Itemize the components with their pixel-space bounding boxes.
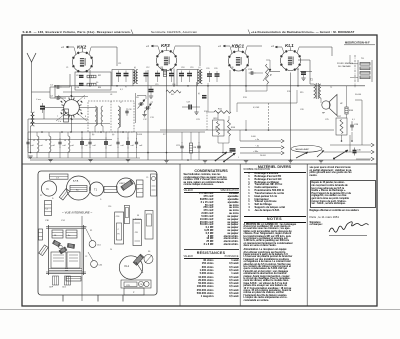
junction	[122, 131, 124, 133]
capacitor C27	[301, 71, 306, 73]
svg-text:C: C	[118, 229, 120, 231]
wire KL1 grid cap left	[275, 46, 282, 48]
layout left small rect	[39, 229, 43, 240]
potentiometer P	[266, 64, 269, 84]
svg-text:7: 7	[57, 116, 59, 118]
section divider line	[22, 163, 377, 165]
layout can F	[51, 252, 66, 268]
svg-text:L5: L5	[95, 109, 97, 111]
svg-text:cmF: cmF	[40, 145, 43, 147]
svg-text:R12: R12	[214, 118, 219, 120]
svg-text:cmF: cmF	[52, 145, 55, 147]
capacitor C2	[27, 138, 29, 142]
capacitor C9	[79, 75, 84, 77]
wire C7 top	[117, 132, 119, 139]
layout rect C7	[50, 174, 69, 179]
svg-text:C21: C21	[176, 145, 181, 147]
resistor R5	[163, 70, 166, 77]
coil L3	[49, 136, 51, 152]
header divider tick 1	[131, 30, 133, 35]
svg-text:C7: C7	[151, 102, 154, 104]
svg-text:C10: C10	[76, 87, 81, 89]
terminal arrow right 1	[371, 143, 374, 147]
svg-text:C tr: C tr	[58, 120, 62, 123]
layout pivot circle	[59, 245, 63, 249]
capacitor C8	[126, 108, 128, 111]
chassis foot 1	[62, 295, 64, 302]
svg-text:KF3: KF3	[161, 43, 170, 48]
capacitor C6	[105, 138, 107, 143]
capacitor C17	[188, 105, 190, 110]
svg-text:(r): (r)	[199, 66, 201, 69]
svg-text:R14: R14	[231, 127, 236, 129]
ground Cg	[149, 95, 153, 97]
resistor R3	[87, 83, 96, 86]
wire rail +4v	[240, 140, 281, 142]
wire C7 bottom	[117, 147, 119, 158]
antenna	[27, 53, 36, 62]
wire KL1 plate to T2	[298, 59, 310, 61]
junction	[341, 140, 343, 142]
svg-text:Sentinelle CHASSIS, Américain: Sentinelle CHASSIS, Américain	[151, 30, 197, 34]
layout gang rail right	[83, 225, 85, 275]
svg-text:C8: C8	[129, 109, 133, 111]
junction	[166, 152, 168, 154]
layout rect P	[124, 288, 144, 295]
page bottom scan line	[0, 309, 400, 311]
wire KF3 grid cap left	[151, 45, 158, 47]
tube KF3	[157, 51, 177, 71]
wire AVC bus	[28, 152, 232, 154]
svg-text:cmF: cmF	[31, 145, 34, 147]
capacitor C15	[155, 73, 160, 75]
wire KK2 plate drop	[89, 70, 91, 86]
capacitor C18	[179, 73, 184, 75]
junction	[222, 152, 224, 154]
wire antenna to coil	[31, 111, 33, 112]
svg-text:C19: C19	[230, 67, 235, 69]
wire ant caps	[50, 86, 56, 88]
ground C17	[194, 111, 198, 113]
wire rail drops	[215, 126, 217, 130]
resistor box R12	[213, 120, 225, 136]
layout rect C29	[121, 280, 151, 288]
ground forest 1	[48, 159, 52, 161]
svg-text:5.000: 5.000	[251, 136, 256, 138]
layout tilted lug	[59, 189, 69, 201]
wire socket diag	[78, 95, 86, 102]
terminal strip row 4	[360, 76, 370, 79]
layout rect CW	[151, 174, 157, 196]
layout rect B	[124, 206, 129, 224]
svg-text:S.B.R. — 136, Boulevard Voltai: S.B.R. — 136, Boulevard Voltaire, Paris …	[23, 30, 131, 34]
wire pot bottom	[266, 84, 268, 91]
wire KF3 grid cap right	[175, 45, 200, 47]
shield box KK2 cathode	[75, 72, 111, 90]
junction	[245, 85, 247, 87]
layout filter can	[67, 176, 91, 200]
junction	[70, 131, 72, 133]
svg-text:C25: C25	[325, 119, 330, 121]
svg-text:C11: C11	[118, 63, 121, 65]
wire L3 top	[48, 132, 50, 136]
wire KBC plate	[245, 86, 247, 92]
junction	[173, 85, 175, 87]
svg-text:0,5 MF: 0,5 MF	[253, 107, 260, 109]
svg-text:+4: +4	[218, 45, 221, 48]
wire ground bus	[30, 159, 370, 161]
layout gang top bar	[46, 226, 86, 228]
svg-text:+4: +4	[146, 45, 149, 48]
svg-text:R2: R2	[98, 75, 102, 77]
svg-text:+ 80v: + 80v	[253, 151, 259, 153]
wire detector links	[217, 116, 219, 120]
layout rect R9	[104, 187, 117, 193]
layout foot F	[53, 276, 59, 285]
svg-text:cmF: cmF	[85, 145, 88, 147]
svg-text:C16: C16	[172, 84, 175, 86]
resistor R16	[345, 107, 348, 114]
wire KBC1 top stub	[238, 46, 240, 51]
layout circle E	[144, 255, 153, 264]
wire KF3 plate drop	[173, 69, 175, 86]
speaker	[322, 101, 330, 109]
wire screen bus drop	[27, 119, 29, 153]
capacitor C20	[207, 73, 212, 75]
coil L5	[95, 106, 97, 126]
svg-text:20.000: 20.000	[260, 155, 266, 157]
capacitor C2	[55, 97, 58, 99]
capacitor C11	[116, 73, 121, 75]
tube KL1	[281, 51, 301, 71]
column divider 3	[306, 164, 308, 306]
capacitor C30	[354, 148, 356, 151]
capacitor C8	[127, 138, 129, 143]
layout MF block 2	[66, 230, 77, 238]
capacitor C12	[124, 73, 129, 75]
page frame	[22, 35, 377, 306]
capacitor C13	[144, 73, 149, 75]
chassis outline	[38, 171, 157, 295]
svg-text:C8: C8	[135, 232, 139, 234]
svg-text:5.000: 5.000	[137, 134, 143, 136]
svg-text:C2: C2	[50, 96, 54, 98]
wire socket to bus	[44, 107, 64, 109]
svg-text:– VUE INTERIEURE –: – VUE INTERIEURE –	[61, 211, 93, 215]
layout rect C22	[137, 180, 144, 197]
coil L1 antenna primary	[31, 112, 33, 126]
svg-text:0,1: 0,1	[120, 89, 124, 91]
svg-text:C15: C15	[155, 84, 158, 86]
layout can J	[67, 252, 80, 268]
wire C3 bottom	[59, 147, 61, 158]
IF2 can outline	[177, 70, 198, 86]
wire C21R8 top	[181, 132, 183, 143]
capacitor C28	[351, 121, 353, 125]
coil L1 antenna secondary	[33, 112, 35, 126]
svg-text:C2: C2	[85, 256, 87, 258]
ground antenna	[28, 155, 32, 157]
svg-text:f3: f3	[137, 215, 140, 217]
svg-text:C4: C4	[54, 235, 56, 237]
svg-text:cmF: cmF	[139, 145, 142, 147]
capacitor C21	[181, 142, 183, 146]
svg-text:C12: C12	[146, 67, 149, 69]
svg-text:TR: TR	[117, 234, 120, 236]
resistor box R17	[336, 118, 347, 135]
capacitor C19	[187, 73, 192, 75]
wire C17 leads	[182, 106, 189, 108]
wire C8 top	[127, 132, 129, 139]
wire KL1 grid	[270, 71, 280, 73]
switch I1a	[216, 152, 228, 161]
layout tube f1	[41, 181, 56, 196]
capacitor C25	[230, 148, 236, 150]
wire socket down lead	[71, 116, 73, 133]
wire R6 link	[166, 95, 168, 160]
layout lug b	[59, 247, 67, 254]
wire KL1 grid cap right	[299, 46, 332, 48]
capacitor C9	[136, 138, 138, 142]
svg-text:(b): (b)	[92, 134, 95, 136]
svg-text:C1: C1	[50, 85, 54, 87]
layout rect D2	[145, 211, 153, 240]
tube socket oscillator	[64, 100, 80, 116]
wire KK2 grid cap right	[91, 46, 117, 48]
header divider tick 2	[248, 30, 250, 35]
svg-text:I: I	[238, 157, 239, 159]
terminal arrow +80v	[281, 151, 284, 155]
svg-text:T1: T1	[94, 188, 98, 192]
wire socket right lead	[80, 107, 97, 109]
variable capacitor C6	[138, 103, 140, 105]
svg-text:TABLEAU AVANT: TABLEAU AVANT	[295, 148, 310, 151]
wire right vert 362	[361, 100, 363, 145]
wire KBC1 grid cap right	[247, 45, 262, 47]
junction	[245, 129, 247, 131]
svg-text:C1: C1	[66, 67, 68, 69]
wire dashed vert	[268, 103, 270, 130]
wire KL1 cathode line	[300, 71, 312, 73]
svg-text:R15: R15	[287, 91, 292, 93]
svg-text:C16: C16	[116, 216, 119, 218]
svg-text:(r): (r)	[198, 92, 200, 95]
layout lug c	[67, 243, 75, 248]
svg-text:C23: C23	[196, 119, 201, 121]
junction	[187, 85, 189, 87]
svg-text:D: D	[100, 199, 102, 201]
svg-text:+4: +4	[271, 45, 274, 48]
svg-text:cmF: cmF	[109, 145, 112, 147]
svg-text:C9: C9	[76, 75, 79, 77]
chassis foot 2	[97, 295, 99, 302]
junction	[290, 159, 292, 161]
svg-text:C27: C27	[296, 69, 301, 71]
terminal strip rails	[357, 60, 359, 82]
resistor R2	[87, 75, 96, 78]
layout circle Ch2	[91, 261, 98, 268]
layout small rect	[66, 277, 81, 282]
svg-text:6: 6	[59, 98, 61, 100]
wire KL1 cathode drop	[290, 73, 292, 161]
svg-text:DU CADRAN: DU CADRAN	[338, 65, 351, 68]
socket pin ticks	[81, 113, 83, 115]
wire rail 130	[160, 129, 334, 131]
column divider 2	[239, 164, 241, 306]
IF1 can outline	[112, 70, 133, 86]
svg-text:C18: C18	[181, 67, 184, 69]
layout gang rail left	[48, 225, 50, 275]
junction	[268, 129, 270, 131]
svg-text:ChJ: ChJ	[62, 287, 66, 289]
resistor R11	[214, 111, 231, 114]
wire KBC1 grid cap left	[223, 45, 230, 47]
terminal strip row 3	[360, 72, 370, 75]
layout lug KBC	[121, 180, 133, 191]
ground forest 3	[126, 159, 130, 161]
junction	[351, 140, 353, 142]
junction	[41, 131, 43, 133]
coil L4	[68, 136, 70, 152]
terminal arrow +4v	[281, 139, 284, 143]
svg-text:R15: R15	[300, 92, 303, 94]
layout MF block 1	[52, 230, 63, 238]
layout gang bottom bar	[46, 271, 86, 273]
junction	[147, 152, 149, 154]
tube KBC1	[229, 51, 249, 71]
svg-text:R1: R1	[90, 230, 92, 232]
wire C2 link	[61, 97, 67, 99]
svg-text:C28: C28	[354, 124, 359, 126]
wire HT bus	[55, 85, 365, 87]
ground C27	[301, 77, 305, 79]
shield box oscillator	[88, 101, 134, 132]
svg-text:cmF: cmF	[63, 145, 66, 147]
wire KK2 grid cap left	[66, 46, 74, 48]
wire KL1 top stub	[290, 47, 292, 50]
layout rect C16	[115, 212, 124, 244]
svg-text:KL1: KL1	[125, 264, 130, 268]
svg-text:(r): (r)	[134, 66, 136, 69]
svg-text:ChF: ChF	[49, 287, 54, 289]
terminal strip row 1	[360, 63, 370, 66]
wire right parts	[346, 100, 348, 107]
wire C2 top	[27, 132, 29, 139]
wire C2 bottom	[27, 147, 29, 158]
svg-text:R6: R6	[148, 251, 150, 253]
terminal strip row 2	[360, 67, 370, 70]
coil L7	[118, 106, 120, 128]
layout lug a	[53, 240, 61, 247]
junction	[89, 85, 91, 87]
resistor R14	[228, 120, 231, 136]
wire rail -4v	[240, 147, 281, 149]
wire C1 to grid	[61, 86, 71, 88]
trimmer box osc	[64, 109, 69, 122]
svg-text:R11: R11	[218, 109, 223, 111]
junction	[81, 131, 83, 133]
svg-text:C: C	[138, 189, 140, 191]
layout circle C30	[138, 281, 143, 286]
capacitor C20b	[215, 73, 220, 75]
coil L2	[37, 136, 39, 152]
wire C4 top	[81, 132, 83, 139]
svg-text:− 4v: − 4v	[255, 146, 260, 148]
svg-text:C1J: C1J	[61, 220, 65, 222]
svg-text:8: 8	[85, 116, 87, 118]
layout lug KL1	[133, 254, 144, 265]
coil IF2	[198, 70, 200, 84]
svg-text:C20: C20	[206, 68, 209, 70]
svg-text:cmF: cmF	[131, 145, 134, 147]
layout tube T1	[90, 182, 104, 196]
svg-text:L7: L7	[120, 102, 122, 104]
svg-text:C19: C19	[190, 67, 193, 69]
svg-text:Ch1: Ch1	[97, 245, 102, 247]
svg-text:+ 4v: + 4v	[255, 139, 260, 141]
svg-text:KK2: KK2	[77, 45, 87, 50]
capacitor C22	[198, 142, 200, 146]
layout foot J	[65, 276, 71, 285]
svg-text:MODIFICATION 46 F: MODIFICATION 46 F	[345, 41, 370, 45]
svg-text:C24: C24	[248, 69, 253, 71]
svg-text:P: P	[133, 292, 135, 294]
terminal arrow right 2	[371, 150, 374, 154]
svg-text:C5: C5	[146, 177, 148, 179]
wire right terms	[330, 144, 371, 146]
lamp oval	[291, 145, 322, 152]
svg-text:R3: R3	[98, 87, 102, 89]
wire KK2 top stub	[82, 47, 84, 52]
wire C5 bottom	[89, 147, 91, 158]
svg-text:5: 5	[84, 98, 86, 100]
wire det out	[237, 102, 297, 104]
capacitor C5	[89, 138, 91, 142]
svg-text:KBC1: KBC1	[232, 44, 245, 49]
wire C4 bottom	[81, 148, 83, 159]
ground gang	[142, 114, 146, 116]
layout circle Ch1	[89, 241, 96, 248]
junction	[100, 131, 102, 133]
svg-text:20: 20	[110, 249, 112, 251]
wire bus 123	[30, 123, 110, 125]
svg-text:HP: HP	[322, 113, 326, 115]
svg-text:C16: C16	[108, 206, 111, 208]
switch I1b	[224, 153, 236, 162]
wire KL1 plate drop	[297, 69, 299, 86]
svg-text:C30: C30	[357, 150, 362, 152]
svg-text:cmF: cmF	[71, 145, 74, 147]
capacitor C3	[59, 138, 61, 142]
svg-text:f1: f1	[47, 187, 50, 191]
svg-text:0,1: 0,1	[352, 119, 355, 121]
svg-text:Ko: Ko	[68, 235, 70, 237]
ground	[164, 160, 168, 162]
wire gang corner	[135, 93, 137, 123]
wire L3 bottom	[48, 152, 50, 158]
layout can inner	[70, 186, 87, 192]
svg-text:R8: R8	[194, 147, 198, 149]
svg-text:C6: C6	[136, 97, 139, 99]
wire L4 bottom	[67, 152, 69, 158]
ground	[288, 160, 292, 162]
svg-text:T2: T2	[310, 79, 313, 82]
wire antenna ground lead	[30, 126, 32, 153]
svg-text:R2: R2	[40, 195, 42, 197]
ground	[319, 160, 323, 162]
layout rect C8	[133, 220, 142, 246]
coil IF1	[133, 70, 135, 84]
